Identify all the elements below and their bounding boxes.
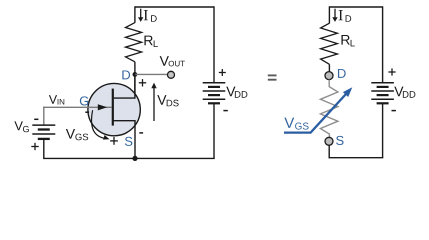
junction dot node D <box>133 72 138 77</box>
transistor Q1 source lead <box>113 121 135 159</box>
current arrow ID left <box>138 9 143 22</box>
label D left (blue) <box>122 70 130 79</box>
battery VG <box>32 125 55 139</box>
wire: resistor to node D right <box>328 64 330 72</box>
wire: top rail left circuit <box>135 6 214 8</box>
wire: bottom rail right circuit <box>329 157 383 159</box>
transistor Q1 drain lead <box>113 74 135 98</box>
wire: battery VG upper stub <box>43 107 45 126</box>
wire: right branch lower <box>213 103 215 158</box>
label VDS <box>157 95 178 106</box>
label VGS right (blue) <box>284 118 308 130</box>
plus sign VDD left <box>219 69 226 76</box>
wire: node S to bottom rail right <box>328 145 330 159</box>
wire: VOUT lead (gray) <box>135 73 168 75</box>
junction dot node S <box>132 156 137 161</box>
battery VDD right circuit <box>371 83 394 104</box>
label S right (blue) <box>336 136 343 145</box>
minus sign VG top <box>34 118 38 120</box>
equals sign <box>268 75 277 79</box>
plus sign VGS source side <box>110 137 118 145</box>
label G (blue) <box>80 96 88 105</box>
wire: left branch top right circuit <box>328 6 330 23</box>
battery VDD left circuit <box>203 83 226 104</box>
wire: right branch lower right circuit <box>382 103 384 157</box>
label ID left <box>144 10 157 22</box>
node S terminal right <box>325 137 333 145</box>
resistor RL right <box>321 23 338 64</box>
label VGS left <box>66 129 88 140</box>
wire: left branch top <box>134 6 136 23</box>
label S left (blue) <box>125 137 132 146</box>
minus sign VDD right <box>392 110 396 112</box>
plus sign VG bottom <box>31 143 38 150</box>
minus sign VDD left <box>223 110 227 112</box>
transistor Q1 body circle <box>88 83 140 135</box>
wire: right branch upper right circuit <box>382 6 384 83</box>
transistor Q1 gate arrowhead <box>98 104 107 110</box>
label VOUT <box>160 56 185 66</box>
terminal VOUT <box>168 71 175 78</box>
transistor Q1 channel bar <box>112 89 114 126</box>
wire: resistor to drain node <box>134 62 136 98</box>
label VDD left <box>226 87 247 98</box>
label RL left <box>144 36 157 47</box>
minus sign VDS source side <box>139 132 143 134</box>
resistor RL left <box>126 23 142 62</box>
wire: battery VG lower stub <box>43 139 45 159</box>
variable resistor (gray zigzag) <box>320 80 338 138</box>
label VDD right <box>394 87 415 98</box>
wire: top rail right circuit <box>329 6 382 8</box>
label RL right <box>341 35 354 46</box>
curved arrow VGS polarity <box>91 110 109 139</box>
current arrow ID right <box>332 9 337 22</box>
plus sign VDD right <box>388 68 395 75</box>
wire: bottom rail left circuit <box>43 157 215 159</box>
blue control arrow VGS <box>284 87 352 132</box>
measurement arrow VDS <box>151 83 156 121</box>
label VG <box>14 121 28 132</box>
minus sign VGS gate side <box>85 111 89 113</box>
wire: VIN gate lead <box>43 106 111 108</box>
label ID right <box>339 10 352 22</box>
label VIN <box>49 95 64 104</box>
plus sign VDS drain side <box>139 79 146 86</box>
label D right (blue) <box>338 69 346 78</box>
wire: right branch upper <box>213 6 215 83</box>
node D terminal right <box>325 72 333 80</box>
